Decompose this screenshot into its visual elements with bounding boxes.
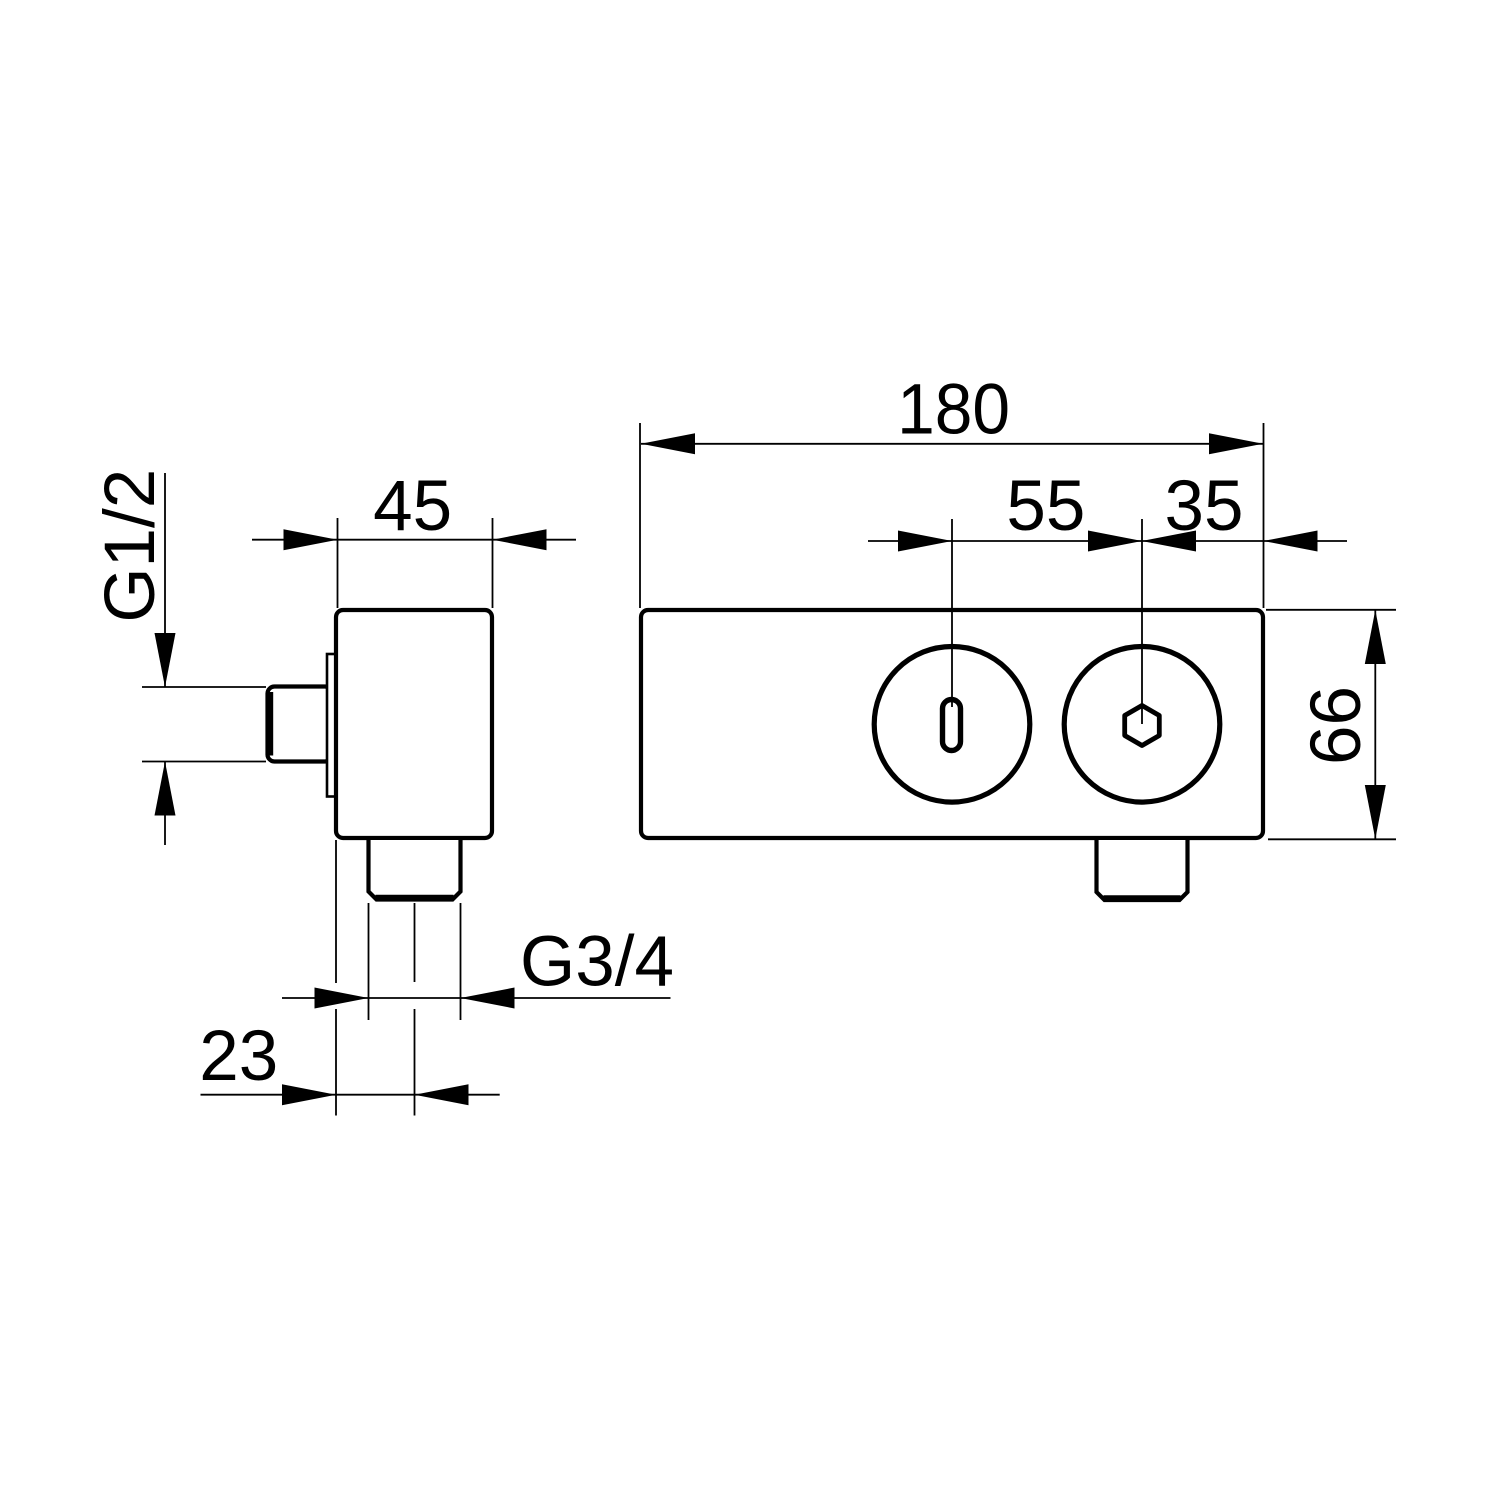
centre line of left circle: [951, 519, 953, 707]
spout G1/2 stub (side view): [268, 687, 333, 762]
valve body (side view): [336, 610, 492, 838]
23 left arrowhead: [282, 1084, 336, 1105]
G3/4 right arrowhead: [461, 988, 515, 1009]
180 left arrowhead: [641, 433, 695, 454]
right control escutcheon circle: [1064, 647, 1220, 803]
G3/4 left extension line: [368, 903, 370, 1020]
45 left arrowhead: [284, 529, 338, 550]
35 right arrowhead (outside): [1264, 531, 1318, 552]
svg-text:66: 66: [1297, 686, 1376, 765]
svg-text:45: 45: [373, 467, 452, 546]
G1/2 top extension line: [142, 686, 266, 688]
66 bottom arrowhead: [1365, 785, 1386, 839]
23 right extension line: [414, 1009, 416, 1116]
180 right arrowhead: [1209, 433, 1263, 454]
55 left arrowhead (outside): [898, 531, 952, 552]
outlet centre line: [414, 903, 416, 982]
180 right extension line: [1263, 423, 1265, 608]
svg-text:35: 35: [1165, 467, 1244, 546]
svg-text:55: 55: [1006, 467, 1085, 546]
23 dimension line: [201, 1094, 500, 1096]
G1/2 bottom extension line: [142, 761, 266, 763]
35 left arrowhead (inside): [1142, 531, 1196, 552]
G1/2 dimension line lower segment: [164, 762, 166, 846]
45 right arrowhead: [493, 529, 547, 550]
23 left extension line (upper segment): [335, 840, 337, 983]
G1/2 lower arrowhead: [155, 762, 176, 816]
66 top extension line: [1266, 609, 1396, 611]
23 left extension line (lower segment): [335, 1009, 337, 1116]
180 left extension line: [639, 423, 641, 608]
66 dimension line: [1374, 610, 1376, 839]
45 right extension line: [492, 518, 494, 608]
wall flange plate (side view): [327, 654, 338, 797]
66 bottom extension line: [1268, 838, 1396, 840]
bottom outlet G3/4 stub (side view): [369, 840, 461, 900]
hex socket in right circle: [1125, 706, 1160, 746]
66 top arrowhead: [1365, 610, 1386, 664]
55 right arrowhead (inside): [1088, 531, 1142, 552]
valve body (front view): [641, 610, 1263, 838]
G3/4 dimension line: [282, 997, 671, 999]
G1/2 dimension line upper segment: [164, 473, 166, 687]
centre line of right circle: [1141, 519, 1143, 724]
45 dimension line: [252, 539, 576, 541]
svg-text:G3/4: G3/4: [520, 923, 674, 1002]
180 dimension line: [641, 443, 1263, 445]
bottom outlet stub (front view): [1097, 840, 1188, 900]
svg-text:180: 180: [897, 371, 1010, 450]
G3/4 left arrowhead: [315, 988, 369, 1009]
left control escutcheon circle: [874, 647, 1030, 803]
G3/4 right extension line: [460, 903, 462, 1020]
55/35 dimension line: [868, 540, 1347, 542]
lever slot in left circle: [943, 700, 961, 751]
45 left extension line: [337, 518, 339, 608]
svg-text:23: 23: [199, 1017, 278, 1096]
svg-text:G1/2: G1/2: [91, 469, 170, 623]
23 right arrowhead: [415, 1084, 469, 1105]
G1/2 upper arrowhead: [155, 633, 176, 687]
